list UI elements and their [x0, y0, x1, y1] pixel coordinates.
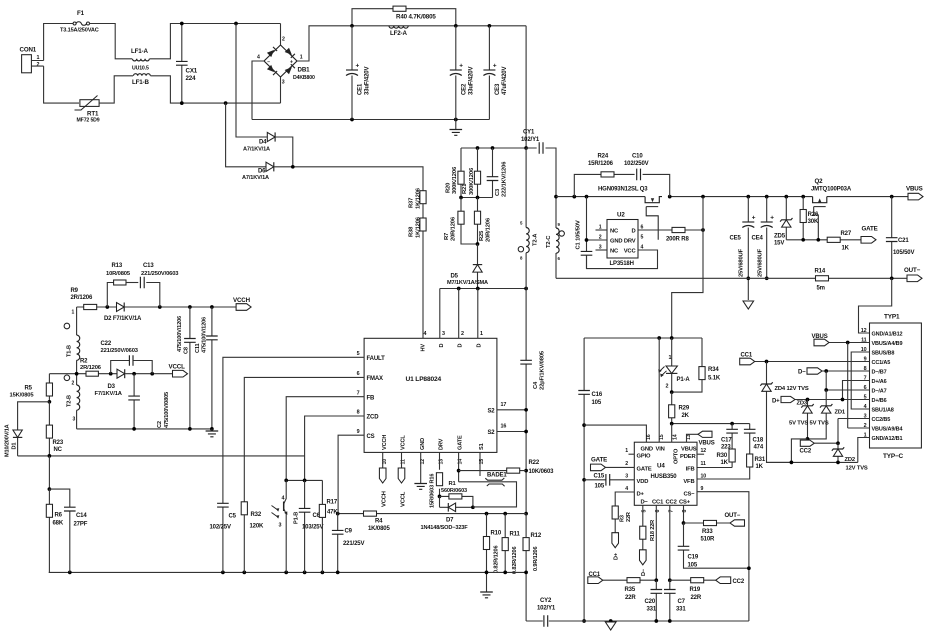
op-amp U2 LP3518H block	[599, 212, 644, 268]
svg-text:VBUS/A9/B4: VBUS/A9/B4	[872, 426, 904, 432]
diode D5	[447, 244, 488, 289]
svg-text:R40 4.7K/0805: R40 4.7K/0805	[396, 13, 436, 20]
svg-text:GND: GND	[641, 446, 653, 452]
svg-text:R5: R5	[25, 386, 33, 392]
wire CS line	[338, 435, 364, 513]
svg-text:6: 6	[357, 371, 360, 377]
net tag VBUS at TYP1	[812, 334, 830, 346]
svg-text:R33: R33	[702, 529, 713, 535]
svg-text:DRV: DRV	[439, 438, 445, 450]
svg-text:FB: FB	[367, 395, 376, 401]
resistor R22	[459, 460, 555, 475]
net tag CC2 at TYP1	[800, 440, 815, 454]
svg-text:R23: R23	[53, 440, 64, 446]
svg-text:120K: 120K	[250, 524, 265, 530]
svg-text:CS+: CS+	[679, 499, 691, 505]
svg-text:TYP−C: TYP−C	[883, 453, 904, 460]
svg-text:5V TVS: 5V TVS	[810, 421, 829, 427]
svg-text:CX1: CX1	[186, 67, 198, 74]
wire D6/D4 to R37	[274, 167, 423, 191]
wire U2 pin1 stub	[596, 229, 608, 231]
svg-text:R38: R38	[409, 226, 415, 237]
svg-text:NC: NC	[54, 447, 63, 453]
capacitor C2	[128, 374, 170, 429]
wire bridge pin1 to DC rail	[297, 26, 352, 61]
svg-text:102/25V: 102/25V	[210, 525, 231, 531]
net tag GATE at U4 pin2	[591, 456, 635, 470]
zener ZD3	[797, 400, 814, 439]
junction dots TYP1 ground rail	[790, 461, 840, 465]
wire U4 pin7 CC2 riser	[669, 505, 671, 580]
svg-text:VBUS: VBUS	[699, 441, 715, 447]
ground at aux return	[206, 429, 219, 437]
junction dot D- pins	[824, 369, 828, 373]
svg-text:M10/200V/1A: M10/200V/1A	[5, 424, 11, 457]
capacitor C3	[487, 148, 508, 198]
svg-text:DB1: DB1	[298, 66, 311, 73]
svg-text:GATE: GATE	[862, 226, 878, 233]
net tag VCCL	[169, 363, 188, 377]
svg-text:105: 105	[592, 400, 602, 406]
svg-text:C20: C20	[645, 599, 656, 605]
wire DC top rail with LF2-A	[352, 25, 526, 27]
wire secondary rail mid	[670, 196, 813, 198]
junction dot R1 D7 node	[471, 505, 475, 509]
svg-text:2K: 2K	[682, 413, 690, 419]
svg-text:1: 1	[72, 310, 75, 316]
junction dots ground line	[609, 619, 672, 623]
svg-text:VBUS: VBUS	[681, 446, 697, 452]
resistor R9	[71, 288, 97, 310]
svg-text:3: 3	[279, 523, 282, 529]
svg-text:TYP1: TYP1	[884, 314, 900, 321]
wire LF1-B to bottom rail	[151, 76, 281, 103]
svg-text:5m: 5m	[817, 285, 825, 291]
wire TYP1 ground rail	[767, 461, 858, 463]
junction dot R5 D1	[48, 400, 52, 404]
junction dot R6 C14	[48, 487, 52, 491]
wire clamp mid rail	[461, 197, 493, 199]
svg-text:FMAX: FMAX	[367, 376, 384, 382]
zener ZD5	[774, 197, 793, 247]
svg-text:GPIO: GPIO	[637, 454, 652, 460]
svg-text:2: 2	[666, 384, 669, 390]
svg-text:T2-B: T2-B	[67, 395, 73, 407]
resistor R6	[46, 489, 64, 572]
svg-text:CC2: CC2	[733, 579, 745, 585]
svg-text:D4KB800: D4KB800	[293, 75, 315, 81]
diode D3	[95, 369, 125, 397]
svg-text:1: 1	[625, 448, 628, 454]
capacitor C13	[140, 263, 179, 307]
svg-text:20R/1206: 20R/1206	[451, 216, 457, 241]
resistor R34	[672, 338, 721, 392]
junction dot opto cathode	[670, 390, 674, 394]
svg-text:R31: R31	[755, 457, 766, 463]
fuse F1	[60, 10, 99, 34]
svg-text:200R R8: 200R R8	[666, 237, 689, 243]
transistor Q3	[598, 186, 662, 240]
junction dot OUT- riser	[890, 276, 894, 280]
resistor R19	[670, 578, 716, 601]
svg-text:68K: 68K	[53, 521, 64, 527]
svg-text:C7: C7	[678, 599, 686, 605]
svg-text:105/50V: 105/50V	[893, 250, 914, 256]
junction dots DC rail	[350, 24, 491, 28]
wire TYP1 pin9 CC1 row	[754, 361, 870, 363]
wire CE bottom rail	[252, 119, 489, 121]
net tag VCCH down at U1 pin10	[379, 452, 387, 507]
wire drain jog to opto rail	[672, 197, 703, 338]
svg-text:475/100V/1206: 475/100V/1206	[177, 316, 183, 352]
wire U1 pin15 S1 stub	[479, 452, 481, 476]
resistor R18	[640, 505, 656, 550]
zener ZD2	[832, 443, 868, 471]
wire R31 to U4 pin10 VFB	[697, 467, 750, 479]
svg-text:HUSB350: HUSB350	[651, 474, 678, 480]
svg-text:ZD3: ZD3	[797, 401, 808, 407]
junction dot D4 tap	[234, 22, 238, 26]
svg-text:R1: R1	[449, 481, 457, 487]
svg-text:1K: 1K	[721, 460, 729, 466]
svg-text:3: 3	[282, 79, 285, 85]
wire FAULT line	[223, 357, 364, 503]
svg-text:C1 105/50V: C1 105/50V	[576, 220, 582, 249]
capacitor C14	[49, 489, 87, 572]
svg-text:475/100V/1206: 475/100V/1206	[202, 317, 208, 353]
junction dots CE rail	[350, 118, 458, 122]
optocoupler P1-B	[272, 480, 300, 572]
svg-text:2R/1206: 2R/1206	[80, 365, 102, 371]
svg-text:15R/0603 R16: 15R/0603 R16	[430, 474, 436, 508]
svg-text:ZD5: ZD5	[774, 233, 786, 239]
svg-text:D−/A7: D−/A7	[872, 388, 887, 394]
resistor R7	[444, 198, 478, 245]
capacitor C21	[886, 197, 915, 279]
svg-text:T2-A: T2-A	[533, 233, 539, 246]
svg-text:D+/B6: D+/B6	[872, 398, 887, 404]
svg-text:221/250V/0603: 221/250V/0603	[101, 348, 139, 354]
capacitor C1	[576, 197, 593, 269]
wire R12 to CY2	[525, 572, 527, 621]
svg-text:C10: C10	[632, 154, 643, 160]
svg-text:VCCL: VCCL	[401, 435, 407, 450]
capacitor C8	[177, 307, 196, 429]
junction dot D6 tap	[224, 101, 228, 105]
svg-text:1K: 1K	[842, 246, 850, 252]
svg-text:474: 474	[754, 445, 764, 451]
svg-text:VFB: VFB	[683, 479, 694, 485]
svg-text:R27: R27	[841, 231, 852, 237]
svg-text:LF1-B: LF1-B	[132, 79, 149, 86]
svg-text:F7/1KV/1A: F7/1KV/1A	[95, 391, 123, 397]
svg-text:2: 2	[625, 461, 628, 467]
junction dot CC2 C7	[668, 578, 672, 582]
svg-text:12V TVS: 12V TVS	[846, 465, 868, 471]
capacitor CE3	[483, 26, 508, 120]
svg-text:9: 9	[701, 486, 704, 492]
svg-text:D1: D1	[12, 443, 18, 450]
wire FB line	[286, 397, 364, 481]
svg-text:D−/B7: D−/B7	[872, 369, 887, 375]
svg-text:CE3: CE3	[495, 83, 501, 95]
svg-text:D: D	[631, 229, 635, 235]
svg-text:510R: 510R	[701, 537, 716, 543]
wire ZCD sense row	[18, 455, 305, 457]
wire U1 pin2 D riser	[458, 289, 460, 339]
junction dots D+ row	[806, 398, 845, 402]
svg-text:GATE: GATE	[591, 456, 607, 463]
svg-text:R7: R7	[444, 233, 450, 240]
svg-text:33uF/420V: 33uF/420V	[365, 67, 371, 95]
svg-text:D: D	[477, 344, 483, 348]
svg-text:4: 4	[282, 496, 285, 502]
svg-text:LP3518H: LP3518H	[610, 261, 634, 267]
svg-text:HV: HV	[421, 344, 427, 352]
svg-text:ZCD: ZCD	[367, 415, 380, 421]
svg-text:C18: C18	[753, 438, 764, 444]
junction dots gate row	[801, 238, 820, 242]
junction dot R16 R1	[438, 495, 442, 499]
resistor R1	[440, 481, 473, 507]
junction dots VCCH line	[105, 305, 213, 309]
wire D- pin8 to pin6	[826, 371, 869, 390]
junction dot CE5 out	[746, 276, 750, 280]
svg-text:P1-B: P1-B	[294, 512, 300, 524]
svg-text:C8: C8	[184, 347, 190, 354]
svg-text:JMTQ100P03A: JMTQ100P03A	[811, 187, 852, 193]
svg-text:CS: CS	[367, 434, 375, 440]
svg-text:R21: R21	[462, 183, 468, 194]
svg-text:GND/A12/B1: GND/A12/B1	[872, 436, 903, 442]
wire aux return line	[77, 428, 212, 430]
svg-text:VBUS/A4/B9: VBUS/A4/B9	[872, 341, 903, 347]
capacitor C6	[299, 480, 324, 572]
capacitor C18	[744, 424, 764, 454]
wire U4 pin14 OPTO riser	[671, 424, 673, 443]
wire CON1 pin1 to fuse	[44, 24, 74, 61]
resistor R5	[10, 374, 53, 402]
svg-text:221/25V: 221/25V	[343, 541, 364, 547]
svg-text:331: 331	[676, 606, 686, 612]
optocoupler P1-A	[658, 338, 690, 392]
wire OUT- to TYP1 pin12	[859, 278, 892, 333]
wire switch-node rail	[440, 288, 526, 290]
capacitor C9	[332, 514, 365, 573]
svg-text:CC1: CC1	[741, 353, 753, 359]
wire U1 pin16 S2	[497, 431, 526, 433]
svg-text:25V/680UF: 25V/680UF	[738, 248, 744, 277]
svg-text:27PF: 27PF	[74, 522, 88, 528]
svg-text:+: +	[752, 215, 756, 222]
svg-text:D+: D+	[772, 398, 780, 404]
svg-text:C11: C11	[195, 343, 201, 353]
svg-text:4: 4	[257, 55, 260, 61]
svg-text:12: 12	[861, 328, 867, 334]
net tag VBUS at U4 pin13	[687, 431, 715, 446]
wire opto feed rail	[584, 337, 702, 339]
wire secondary ground line	[526, 620, 749, 622]
wire gate drive row	[786, 239, 827, 241]
inductor LF1-B	[132, 74, 150, 86]
wire U4 pin1 stub	[629, 453, 635, 455]
resistor R31	[747, 454, 766, 470]
svg-text:14: 14	[672, 434, 678, 440]
svg-text:22R: 22R	[691, 595, 702, 601]
svg-text:3: 3	[73, 417, 76, 423]
zener ZD1	[808, 390, 846, 439]
capacitor C10	[624, 154, 670, 197]
svg-text:D: D	[439, 344, 445, 348]
resistor R11	[502, 514, 520, 574]
thermistor RT1	[75, 96, 100, 124]
wire top rail to D4	[236, 24, 267, 138]
svg-text:R19: R19	[690, 587, 701, 593]
junction dots C16 column	[582, 423, 586, 623]
svg-text:475/100V/0805: 475/100V/0805	[164, 392, 170, 428]
capacitor CX1	[176, 24, 198, 104]
capacitor C7	[664, 580, 686, 621]
svg-text:47K: 47K	[327, 510, 338, 516]
junction dot CS+	[682, 521, 686, 525]
wire GATE pin14 drop	[458, 452, 460, 481]
svg-text:17: 17	[501, 402, 507, 408]
svg-text:R6: R6	[55, 513, 63, 519]
wire VBUS pin11 to pin2	[848, 343, 870, 429]
svg-text:CE5: CE5	[730, 236, 742, 242]
wire bridge pin4 to cap bottom rail	[252, 61, 264, 120]
wire opto collector row	[286, 479, 322, 481]
net tag D+ at TYP1	[772, 396, 795, 404]
svg-text:R22: R22	[529, 460, 540, 466]
chassis ground below CE5	[743, 301, 754, 309]
svg-text:2: 2	[72, 381, 75, 387]
connector CON1	[20, 47, 44, 73]
wire D4 out	[276, 137, 293, 167]
junction dot R23 bottom	[48, 454, 52, 458]
resistor R27	[827, 231, 861, 252]
resistor R32	[241, 502, 264, 573]
svg-text:D−: D−	[641, 499, 649, 505]
junction dot clamp bottom	[476, 242, 480, 246]
svg-text:CC1: CC1	[589, 572, 601, 578]
resistor R24	[574, 154, 634, 197]
wire TYP1 pin7 to pin5	[843, 381, 870, 400]
wire LF1-A to top rail	[150, 24, 281, 59]
wire VCCH line	[77, 306, 237, 308]
resistor R29	[669, 392, 690, 424]
wire current sense line	[338, 513, 526, 515]
junction dot windings	[75, 372, 79, 376]
svg-text:0.82R/1206: 0.82R/1206	[512, 547, 518, 574]
svg-text:C2: C2	[157, 421, 163, 428]
resistor R38	[409, 216, 427, 238]
svg-text:R12: R12	[531, 533, 542, 539]
transformer winding T1-B	[64, 307, 80, 374]
wire clamp top rail	[461, 26, 526, 148]
svg-text:1K/1206: 1K/1206	[416, 216, 422, 238]
svg-text:A7/1KV/1A: A7/1KV/1A	[243, 146, 270, 152]
resistor R26	[800, 197, 819, 240]
transformer winding T2-C	[546, 222, 564, 278]
wire U2 pin3 stub	[596, 249, 608, 251]
svg-text:GND: GND	[420, 438, 426, 450]
svg-text:9: 9	[357, 429, 360, 435]
svg-text:8: 8	[357, 410, 360, 416]
svg-text:C19: C19	[688, 555, 699, 561]
svg-text:VCCL: VCCL	[400, 491, 406, 507]
svg-text:103/25V: 103/25V	[302, 525, 323, 531]
svg-text:D−: D−	[641, 568, 647, 576]
svg-text:R25: R25	[479, 230, 485, 241]
svg-text:−: −	[267, 59, 270, 65]
svg-text:D−: D−	[798, 370, 806, 376]
svg-text:SBU1/A8: SBU1/A8	[872, 407, 894, 413]
wire bridge pin2 riser	[280, 24, 282, 46]
junction dots clamp mid	[459, 196, 479, 200]
wire FMAX line	[244, 377, 364, 501]
junction dots sense line	[336, 512, 507, 516]
svg-text:CC2: CC2	[800, 448, 812, 454]
svg-text:VDD: VDD	[637, 479, 649, 485]
svg-text:C14: C14	[76, 513, 87, 519]
svg-text:2: 2	[37, 62, 40, 68]
svg-text:R14: R14	[815, 268, 826, 274]
svg-text:C4: C4	[533, 381, 539, 389]
svg-text:A7/1KV/1A: A7/1KV/1A	[242, 175, 269, 181]
svg-text:CON1: CON1	[20, 47, 37, 54]
svg-text:DRV: DRV	[624, 239, 636, 245]
resistor R12	[523, 514, 542, 573]
svg-text:D2 F7/1KV/1A: D2 F7/1KV/1A	[104, 316, 142, 322]
svg-text:C22: C22	[101, 341, 112, 347]
svg-text:CE1: CE1	[358, 83, 364, 95]
wire primary ground rail	[49, 571, 526, 573]
capacitor C22	[101, 341, 153, 374]
junction dot R8 out	[701, 228, 705, 232]
junction dots secondary rail	[572, 195, 893, 199]
resistor R13	[106, 263, 138, 307]
transformer winding T2-B	[64, 374, 80, 429]
svg-text:OPTO: OPTO	[674, 448, 680, 464]
wire R37 to R38	[422, 204, 424, 218]
svg-text:2: 2	[282, 37, 285, 43]
wire R38 to U1 HV pin4	[422, 231, 424, 338]
svg-text:FAULT: FAULT	[367, 356, 386, 362]
net tag VCCL down at U1 pin11	[398, 452, 406, 507]
svg-text:U2: U2	[617, 212, 625, 219]
svg-text:VCCL: VCCL	[169, 363, 186, 370]
wire TYP1 pin11 VBUS	[829, 342, 870, 344]
svg-text:4: 4	[625, 486, 628, 492]
wire RT1 to LF1-B	[99, 76, 133, 103]
net tag D+ down	[612, 533, 620, 560]
junction dots opto rail	[657, 336, 673, 340]
svg-text:CC2: CC2	[666, 499, 677, 505]
svg-text:T3.15A/250VAC: T3.15A/250VAC	[60, 28, 99, 34]
svg-text:R29: R29	[679, 406, 690, 412]
svg-text:R20: R20	[446, 183, 452, 193]
wire secondary rail left	[556, 196, 645, 198]
svg-text:331: 331	[647, 606, 657, 612]
svg-text:HGN093N12SL Q3: HGN093N12SL Q3	[598, 186, 648, 192]
svg-text:15K/0805: 15K/0805	[10, 393, 35, 399]
svg-text:16: 16	[646, 434, 652, 440]
resistor R10	[483, 514, 501, 573]
svg-text:GATE: GATE	[637, 466, 652, 472]
svg-text:+: +	[770, 215, 774, 222]
capacitor C4 on sense column	[520, 289, 545, 514]
